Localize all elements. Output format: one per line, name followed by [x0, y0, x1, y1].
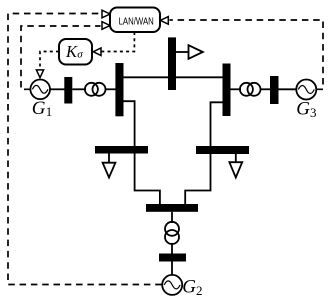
transformer T3 — [240, 83, 261, 96]
bus 1 (left) — [115, 63, 123, 116]
arrowhead into LAN/WAN (top-left) — [102, 10, 110, 18]
bar (series element) right of transformer T3 — [270, 76, 279, 104]
bar (series element) below transformer T2 — [159, 254, 186, 262]
bus 4 (lower left) — [95, 146, 148, 154]
wire: bus 3 to transformer T3 — [231, 88, 242, 90]
generator G1 — [30, 80, 52, 120]
wire: dashed measurement path G3 to LAN/WAN (right loop) — [170, 20, 324, 89]
svg-text:G: G — [32, 98, 46, 119]
generator G2 — [162, 275, 202, 298]
wire: dotted control path K_sigma to G1 — [40, 52, 59, 70]
wire: transformer T2 to bar — [171, 243, 173, 254]
load arrow at bus 2 — [189, 45, 203, 59]
arrowhead into G1 — [36, 70, 43, 78]
wire: bar to G2 — [171, 262, 173, 277]
load arrow at bus 4 — [103, 163, 116, 178]
svg-text:G: G — [182, 277, 196, 298]
svg-text:2: 2 — [196, 283, 203, 298]
svg-text:K: K — [65, 42, 78, 61]
arrowhead into K_sigma — [93, 48, 101, 56]
wire: bar to transformer T1 — [72, 88, 86, 90]
bus 5 (bottom middle) — [146, 204, 198, 212]
controller K_sigma box — [59, 39, 92, 65]
wire: transformer T1 to bus 1 — [106, 88, 117, 90]
svg-text:1: 1 — [46, 104, 53, 119]
bus 2 (middle top) — [168, 37, 176, 90]
transformer T1 — [85, 83, 106, 96]
wire: dashed measurement path G2 to LAN/WAN (outer loop) — [8, 14, 162, 285]
bus 6 (lower right) — [196, 146, 249, 154]
bus 3 (right) — [223, 64, 231, 117]
svg-text:3: 3 — [310, 105, 317, 120]
svg-text:G: G — [296, 98, 310, 119]
wire: load stem at bus 6 — [235, 154, 237, 163]
generator G3 — [296, 80, 316, 121]
load arrow at bus 6 — [229, 162, 242, 177]
wire: bus 5 down to transformer T2 — [171, 212, 173, 223]
wire: dashed measurement path G1 to LAN/WAN (inner loop) — [21, 26, 101, 89]
wire: bus 1 down to lower-left bus and bus 5 — [124, 101, 160, 205]
LAN/WAN box — [110, 8, 160, 33]
arrowhead into LAN/WAN (lower-left) — [102, 22, 110, 30]
wire: G1 to bar — [50, 88, 65, 90]
svg-text:LAN/WAN: LAN/WAN — [119, 16, 154, 27]
transformer T2 — [165, 222, 179, 244]
wire: transformer T3 to bar — [261, 88, 272, 90]
svg-text:σ: σ — [77, 48, 83, 60]
bar (series element) left of transformer T1 — [64, 77, 72, 104]
wire: dotted control path LAN/WAN to K_sigma — [102, 32, 135, 52]
wire: load stem at bus 2 — [176, 51, 189, 53]
wire: bus 3 down to lower-right bus and bus 5 — [185, 102, 222, 205]
arrowhead into LAN/WAN (right side) — [160, 17, 168, 25]
wire: interconnect bus1 - bus2 - bus3 — [124, 76, 223, 78]
wire: load stem at bus 4 — [108, 154, 110, 164]
wire: bar to G3 — [279, 88, 298, 90]
